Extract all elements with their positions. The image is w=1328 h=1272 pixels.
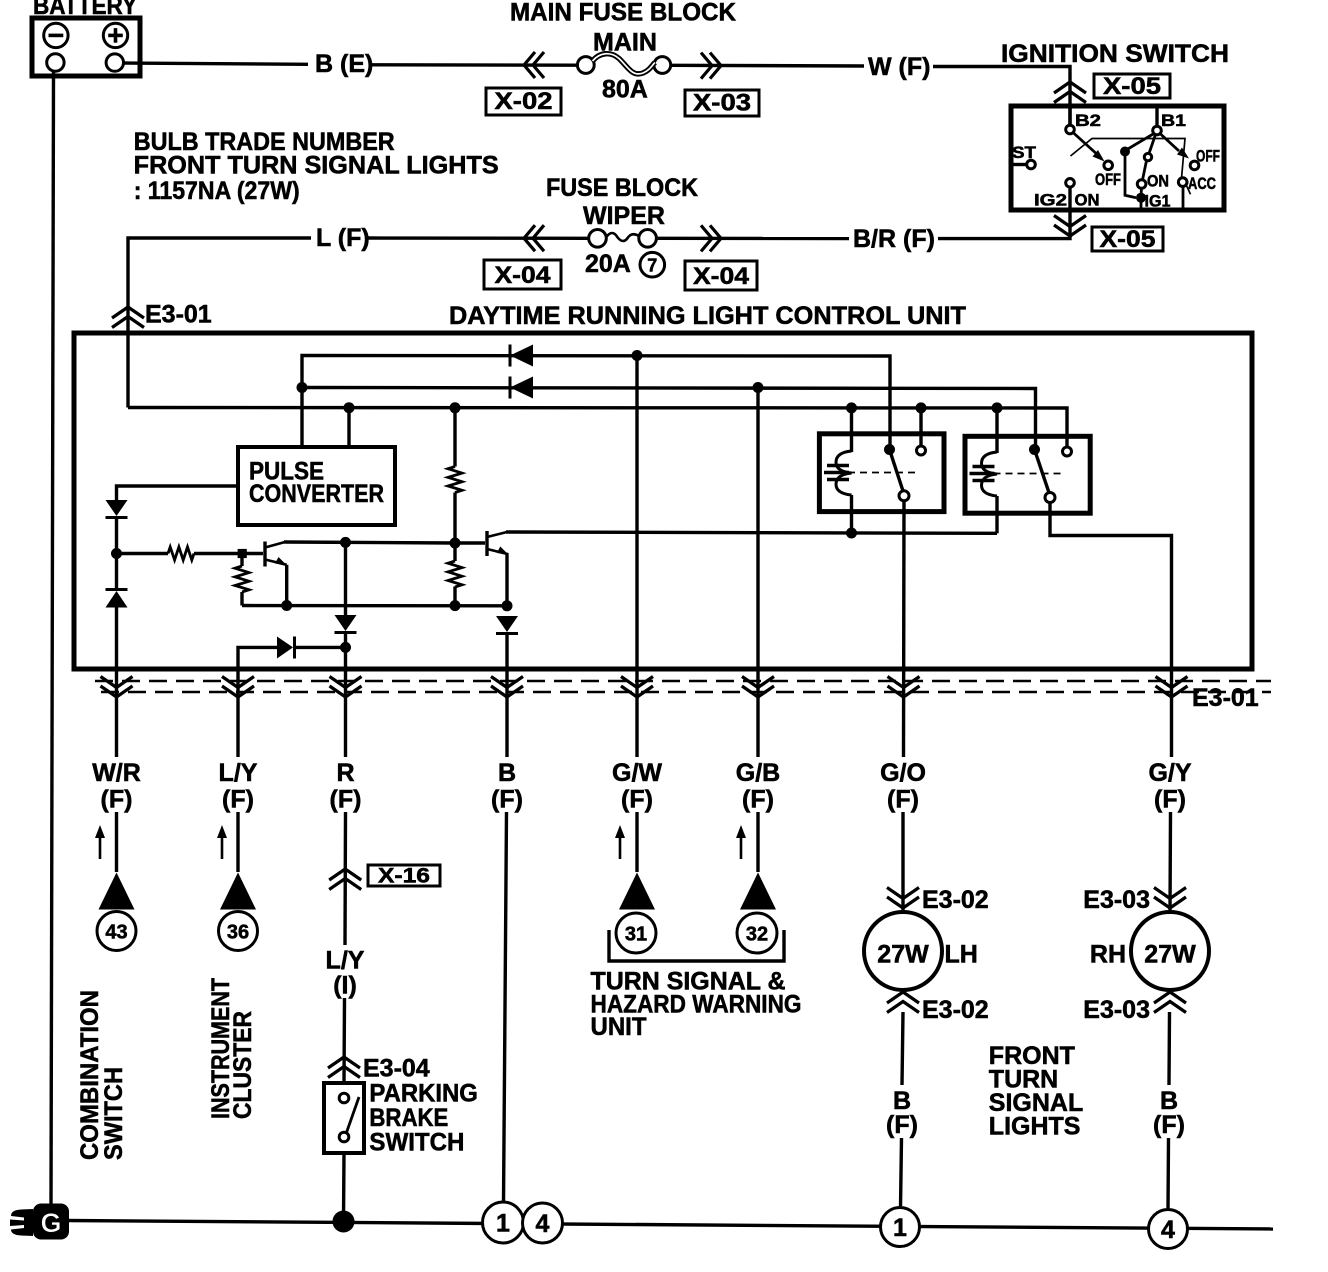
svg-text:E3-01: E3-01 <box>1192 684 1259 712</box>
svg-text:G/O: G/O <box>880 759 926 787</box>
wire R to X-16 <box>343 812 347 945</box>
svg-text:IG2: IG2 <box>1034 191 1067 210</box>
svg-text:E3-02: E3-02 <box>922 886 989 914</box>
label FRONT TURN SIGNAL LIGHTS <box>989 1042 1083 1141</box>
svg-text:E3-02: E3-02 <box>922 996 989 1024</box>
svg-text:W/R: W/R <box>92 759 141 787</box>
node dot line2/G B <box>753 382 764 393</box>
diode D2 <box>106 590 128 608</box>
connector chevron row G/B <box>742 677 774 698</box>
node dot collector/R4 <box>450 538 461 549</box>
connector X-05 bottom <box>1092 226 1163 253</box>
connector chevron E3-03 upper <box>1154 888 1186 909</box>
node dot line2 left <box>297 382 308 393</box>
pulse converter U2 <box>238 447 395 525</box>
svg-text:X-04: X-04 <box>693 263 750 290</box>
wire line2 (ignition rail) <box>302 388 1036 446</box>
connector chevron E3-02 upper <box>887 888 919 909</box>
terminal circle 31 <box>616 913 656 953</box>
svg-text:80A: 80A <box>602 76 648 104</box>
resistor R4 <box>448 543 462 606</box>
wire Q2 emitter down <box>505 554 508 606</box>
relay K2 coil <box>970 408 998 533</box>
connector chevron X-04 right <box>701 225 721 251</box>
svg-text:SWITCH: SWITCH <box>369 1128 464 1156</box>
wire G/W from line1 <box>635 356 638 758</box>
wire pulse pin2 <box>347 408 350 447</box>
wire line3 (L feed rail) <box>128 408 1067 448</box>
wire R1 to base node <box>194 552 263 555</box>
relay K1 coil <box>824 408 852 533</box>
svg-text:(F): (F) <box>491 786 523 814</box>
connector chevron X-05 bottom <box>1054 216 1086 237</box>
svg-text:G: G <box>40 1208 61 1238</box>
svg-text:MAIN: MAIN <box>593 29 657 57</box>
svg-text:ON: ON <box>1075 191 1100 210</box>
connector chevron X-04 left <box>524 225 544 251</box>
svg-text:LIGHTS: LIGHTS <box>989 1113 1081 1141</box>
relay K1 common contact <box>884 444 895 455</box>
svg-text:(F): (F) <box>1153 1111 1185 1139</box>
svg-text:(F): (F) <box>742 786 774 814</box>
svg-text:ACC: ACC <box>1188 174 1216 193</box>
svg-text:SWITCH: SWITCH <box>100 1067 128 1160</box>
resistor R1 <box>168 547 194 560</box>
transistor Q2 <box>487 531 509 556</box>
svg-text:OFF: OFF <box>1196 147 1220 166</box>
node dot relay1 coil bottom <box>846 528 857 539</box>
diode D6 <box>510 377 533 399</box>
svg-text:4: 4 <box>1161 1216 1175 1244</box>
svg-text:(F): (F) <box>886 1111 918 1139</box>
relay K1 armature dashed <box>824 472 915 474</box>
bulb RH 27W <box>1131 912 1209 990</box>
wire line1 (B+ rail) <box>302 356 890 448</box>
svg-text:31: 31 <box>625 924 647 946</box>
connector chevron X-02 <box>524 52 544 78</box>
svg-text:B1: B1 <box>1161 111 1186 130</box>
node G/W label <box>612 759 662 814</box>
fuse number 7 <box>640 252 665 277</box>
svg-text:FRONT TURN SIGNAL LIGHTS: FRONT TURN SIGNAL LIGHTS <box>134 152 499 180</box>
contact ON <box>1137 180 1146 189</box>
connector chevron E/X-05 top <box>1054 82 1086 103</box>
svg-text:RH: RH <box>1090 941 1126 969</box>
wire D3 to node <box>344 633 347 648</box>
svg-text:FUSE BLOCK: FUSE BLOCK <box>546 174 698 202</box>
arrow G/W <box>615 825 625 859</box>
svg-text:27W: 27W <box>877 941 929 969</box>
wire bulb RH to B(F) <box>1167 1012 1171 1085</box>
label PARKING BRAKE SWITCH <box>369 1080 478 1157</box>
svg-text:IG1: IG1 <box>1145 192 1171 211</box>
connector chevron row L/Y <box>222 677 254 698</box>
wire label to fuse <box>371 63 578 67</box>
wire B(F) RH to ground bus <box>1166 1138 1170 1210</box>
connector X-05 top <box>1094 73 1170 100</box>
connector X-04 right <box>685 261 757 290</box>
diode D4 <box>277 637 295 659</box>
wire fuse to B/R label <box>656 237 849 241</box>
connector triangle 43 <box>99 873 135 910</box>
relay K2 NO contact <box>1063 447 1072 456</box>
wire B(F) LH to ground bus <box>901 1138 902 1208</box>
terminal circle 36 <box>219 912 258 951</box>
svg-text:B2: B2 <box>1075 111 1101 130</box>
relay K1 box <box>819 434 944 512</box>
svg-text:E3-01: E3-01 <box>145 301 212 329</box>
relay K2 blade <box>1035 450 1050 493</box>
svg-text:X-16: X-16 <box>378 865 430 888</box>
wire W/R to combination switch <box>115 812 118 872</box>
node dot line3 relay1 coil <box>846 402 857 413</box>
node dot D4/D3 <box>340 642 351 653</box>
svg-text:OFF: OFF <box>1095 170 1121 189</box>
node L/Y label <box>219 759 258 814</box>
diode D3 <box>335 615 357 633</box>
terminal circle 1 right <box>881 1208 920 1247</box>
relay K1 NO contact <box>917 408 926 455</box>
svg-text:B/R (F): B/R (F) <box>853 225 935 253</box>
node G/B label <box>736 759 780 814</box>
node dot line3 relay1 NO <box>916 402 927 413</box>
svg-text:X-03: X-03 <box>693 90 751 117</box>
parking brake switch S1 <box>324 1083 364 1153</box>
pin B1 <box>1155 106 1158 126</box>
svg-text:MAIN FUSE BLOCK: MAIN FUSE BLOCK <box>510 0 736 27</box>
node dot line3 R3 <box>450 402 461 413</box>
wire B exit <box>505 634 508 758</box>
wire Q2 base <box>455 541 485 544</box>
svg-text:X-05: X-05 <box>1103 73 1161 100</box>
wire bulb LH to B(F) <box>902 1012 903 1085</box>
svg-text:L (F): L (F) <box>316 224 370 252</box>
relay K2 box <box>965 436 1090 513</box>
arrow L/Y <box>217 825 227 859</box>
svg-text:4: 4 <box>536 1210 550 1238</box>
svg-text:(F): (F) <box>222 786 254 814</box>
node dot emitter Q1 <box>281 600 292 611</box>
node L/Y(I) label <box>326 946 365 999</box>
svg-text:G/W: G/W <box>612 759 662 787</box>
connector triangle 36 <box>220 873 256 910</box>
node dot line1/G W <box>632 350 643 361</box>
svg-text:E3-03: E3-03 <box>1083 886 1150 914</box>
node G/O label <box>880 759 926 814</box>
connector chevron X-03 <box>701 53 721 79</box>
connector X-03 <box>685 90 759 117</box>
terminal circle 1 left <box>483 1202 524 1243</box>
wire G/Y to bulb <box>1168 812 1172 912</box>
contact IG1 <box>1136 193 1146 203</box>
label TURN SIGNAL & HAZARD WARNING UNIT <box>591 968 802 1041</box>
wire G/O to bulb <box>901 812 904 912</box>
diode D1 <box>106 500 128 518</box>
svg-text:X-02: X-02 <box>495 88 553 115</box>
node dot line3 pulse pin <box>344 402 355 413</box>
node dot line3 relay2 coil <box>992 402 1003 413</box>
svg-text:IGNITION SWITCH: IGNITION SWITCH <box>1001 40 1229 68</box>
node dot W/R junction <box>111 548 122 559</box>
diode D5 <box>510 345 533 367</box>
svg-text:DAYTIME RUNNING LIGHT CONTROL: DAYTIME RUNNING LIGHT CONTROL UNIT <box>449 302 966 330</box>
relay K2 output contact circle <box>1045 493 1055 503</box>
connector chevron row G/W <box>621 677 653 698</box>
svg-text:L/Y: L/Y <box>326 946 365 974</box>
relay K2 armature dashed <box>970 473 1061 475</box>
svg-text:UNIT: UNIT <box>591 1013 647 1041</box>
connector row E3-01 dashed <box>95 681 1271 692</box>
node B(F) RH label <box>1153 1087 1185 1139</box>
connector chevron E3-01 top <box>112 307 144 328</box>
wire emitter Q1 down <box>285 565 288 606</box>
svg-text:WIPER: WIPER <box>583 202 665 230</box>
connector chevron row R <box>330 677 362 698</box>
switch arm B1-OFF <box>1160 134 1179 152</box>
wire B to ground bus <box>504 812 507 1203</box>
switch arm B2-OFF <box>1073 133 1099 157</box>
svg-text:B (E): B (E) <box>315 50 373 78</box>
wire D1 to node <box>115 518 118 590</box>
node dot ground bus <box>333 1211 355 1233</box>
svg-text:CLUSTER: CLUSTER <box>229 1011 257 1119</box>
connector chevron row G/O <box>888 677 920 698</box>
relay K1 blade <box>890 450 904 492</box>
svg-text:36: 36 <box>227 922 249 944</box>
node R label <box>330 759 362 814</box>
node dot emitter Q2 / D7 <box>502 600 513 611</box>
mechanical linkage line <box>1071 139 1186 179</box>
wire Q2 collector to relay coils <box>506 532 997 533</box>
wire L/Y to instrument cluster <box>236 812 239 872</box>
contact mid circle <box>1149 135 1156 154</box>
svg-text:(F): (F) <box>101 786 133 814</box>
svg-text:L/Y: L/Y <box>219 759 258 787</box>
node dot R4 bottom <box>450 600 461 611</box>
wire L(F) to fuse <box>368 236 589 240</box>
wire W(F) to ignition switch <box>933 67 1070 126</box>
node dot collector/A <box>340 537 351 548</box>
connector X-04 left <box>484 260 561 289</box>
connector chevron E3-03 lower <box>1154 992 1186 1013</box>
label COMBINATION SWITCH (rotated) <box>76 990 128 1160</box>
connector chevron row B <box>491 677 523 698</box>
wire Q1 collector <box>284 542 455 543</box>
wire pulse left to diode chain <box>117 486 239 500</box>
svg-text:B: B <box>498 759 516 787</box>
svg-text:(F): (F) <box>621 786 653 814</box>
svg-text:ON: ON <box>1147 172 1169 191</box>
wire A collector to D3 <box>344 542 347 615</box>
node W/R label <box>92 759 141 814</box>
svg-text:E3-03: E3-03 <box>1083 996 1150 1024</box>
connector chevron row G/Y <box>1156 677 1188 698</box>
bulb LH 27W <box>864 912 942 990</box>
wire W/R exit <box>115 608 118 758</box>
svg-text:R: R <box>336 759 354 787</box>
wire L/Y(I) to parking brake switch <box>342 998 346 1083</box>
svg-text:(F): (F) <box>1154 786 1186 814</box>
svg-text:7: 7 <box>647 256 657 276</box>
wire relay K1 output (G/O) <box>902 501 906 757</box>
pin IG2 <box>1066 179 1075 188</box>
wire G/W to turn signal unit <box>635 812 638 872</box>
transistor Q1 <box>265 542 287 567</box>
svg-text:X-04: X-04 <box>495 262 552 289</box>
connector chevron X-16 <box>329 869 361 890</box>
connector chevron E3-04 <box>328 1057 360 1078</box>
daytime running light control unit box <box>74 333 1252 669</box>
wire L/Y branch to D4 <box>238 647 277 757</box>
contact ACC <box>1178 178 1187 187</box>
label INSTRUMENT CLUSTER (rotated) <box>207 978 257 1119</box>
node G/Y label <box>1148 759 1191 814</box>
ignition switch U1 <box>1011 106 1224 211</box>
svg-text:W (F): W (F) <box>868 53 930 81</box>
connector chevron row W/R <box>101 677 133 698</box>
ground bus wire <box>66 1221 1273 1230</box>
node base Q1 <box>238 549 247 558</box>
terminal circle 32 <box>737 913 777 953</box>
svg-text:20A: 20A <box>585 250 631 278</box>
connector chevron E3-02 lower <box>887 992 919 1013</box>
wire relay K2 output (G/Y) <box>1050 503 1172 758</box>
wire emitter bus y605 <box>242 604 507 608</box>
wire node to R1 <box>117 552 169 555</box>
svg-text:32: 32 <box>746 924 768 946</box>
svg-text:LH: LH <box>945 941 978 969</box>
arrow G/B <box>736 825 746 859</box>
wire IG2 to B/R(F) <box>938 187 1070 239</box>
svg-text:(F): (F) <box>887 786 919 814</box>
wire A exit <box>344 647 347 757</box>
resistor R3 <box>448 408 462 543</box>
terminal circle 43 <box>97 912 136 951</box>
svg-text:CONVERTER: CONVERTER <box>249 480 384 508</box>
relay K1 output contact circle <box>899 491 909 501</box>
wire G/B to turn signal unit <box>756 812 759 872</box>
svg-text:(F): (F) <box>330 786 362 814</box>
wire parking brake to ground bus <box>342 1153 346 1222</box>
connector X-02 <box>486 88 561 115</box>
svg-text:27W: 27W <box>1144 941 1196 969</box>
node B label <box>491 759 523 814</box>
wire L(F) into control unit <box>128 238 311 408</box>
connector triangle 31 <box>619 873 655 910</box>
ground symbol G <box>10 1204 69 1240</box>
pin B2 <box>1068 106 1071 125</box>
connector X-16 <box>368 865 440 888</box>
svg-text:(I): (I) <box>333 972 357 1000</box>
turn signal unit bracket <box>609 930 784 961</box>
wire fuse to W(F) <box>671 64 864 68</box>
switch arm B1 to contact dot <box>1127 134 1154 150</box>
resistor R2 <box>235 554 249 606</box>
diode D7 <box>496 616 518 634</box>
note bulb trade number <box>134 128 499 205</box>
node B(F) LH label <box>886 1087 918 1139</box>
relay K2 common contact <box>1029 444 1040 455</box>
svg-text:G/B: G/B <box>736 759 780 787</box>
terminal circle 4 left <box>523 1203 563 1243</box>
svg-text:E3-04: E3-04 <box>363 1055 430 1083</box>
fuse WIPER 20A <box>585 230 656 279</box>
wire G/B from line2 <box>756 388 759 758</box>
terminal circle 4 right <box>1149 1210 1188 1249</box>
wire D4 to node <box>295 646 346 649</box>
svg-text:: 1157NA (27W): : 1157NA (27W) <box>134 177 300 205</box>
battery <box>32 18 140 76</box>
arrow W/R <box>95 825 105 859</box>
svg-text:G/Y: G/Y <box>1148 759 1191 787</box>
svg-text:1: 1 <box>496 1210 510 1238</box>
svg-text:X-05: X-05 <box>1100 226 1156 253</box>
wire battery negative to ground (left vertical) <box>51 71 54 1205</box>
fuse MAIN 80A <box>577 29 670 104</box>
connector triangle 32 <box>740 873 776 910</box>
svg-text:43: 43 <box>105 922 127 944</box>
wire B(E) battery to main fuse <box>124 63 309 64</box>
svg-text:1: 1 <box>893 1214 907 1242</box>
